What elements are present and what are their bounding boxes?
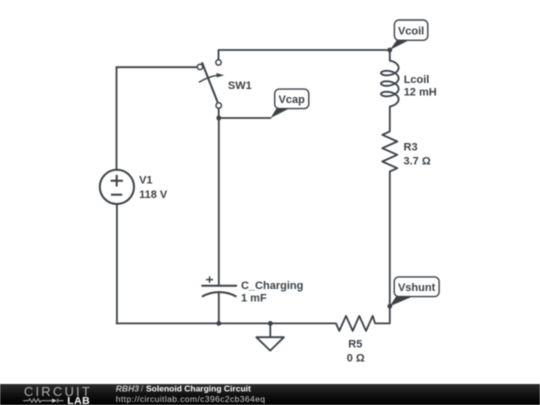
svg-text:Solenoid Charging Circuit: Solenoid Charging Circuit [146, 383, 251, 393]
node Vcoil junction [387, 48, 392, 53]
flag Vshunt [390, 277, 439, 306]
svg-text:Vcoil: Vcoil [398, 25, 424, 37]
logo resistor-diode doodle [23, 398, 63, 403]
node Vshunt junction [387, 304, 392, 309]
svg-text:3.7 Ω: 3.7 Ω [404, 155, 431, 167]
inductor Lcoil [381, 61, 399, 107]
wire bottom horizontal [117, 322, 337, 324]
ground [256, 323, 284, 350]
svg-text:0 Ω: 0 Ω [347, 353, 365, 365]
svg-text:R5: R5 [348, 339, 362, 351]
wire left vertical upper [116, 67, 118, 170]
node junction below switch [216, 116, 221, 121]
svg-text:Vshunt: Vshunt [398, 282, 436, 294]
switch SW1 [197, 60, 224, 109]
wire top-left horizontal [117, 66, 197, 68]
svg-text:http://circuitlab.com/c396c2cb: http://circuitlab.com/c396c2cb364eq [116, 394, 266, 404]
flag Vcap [271, 89, 309, 118]
wire switch-bottom to Vcap junction [218, 109, 220, 118]
svg-text:12 mH: 12 mH [404, 87, 437, 99]
capacitor plus sign [206, 276, 213, 282]
svg-text:R3: R3 [404, 142, 418, 154]
svg-text:Vcap: Vcap [279, 94, 306, 106]
wire R3 to R5 corner (through Vshunt node) [375, 172, 390, 324]
voltage source V1 [100, 170, 134, 204]
wire switch-top to Vcoil node [219, 50, 390, 59]
wire Vcap junction to Vcap node [219, 117, 271, 119]
svg-text:118 V: 118 V [139, 189, 168, 201]
resistor R5 [336, 316, 375, 331]
wire capacitor bottom branch [218, 292, 220, 323]
flag Vcoil [390, 20, 428, 50]
svg-text:LAB: LAB [67, 395, 90, 405]
wire Vcoil node to inductor [389, 50, 391, 61]
svg-text:V1: V1 [139, 175, 152, 187]
node junction ground [268, 321, 273, 326]
wire left vertical lower [116, 204, 118, 323]
capacitor C_Charging [201, 286, 237, 297]
svg-text:RBH3: RBH3 [116, 383, 139, 393]
svg-text:1 mF: 1 mF [241, 293, 267, 305]
svg-text:SW1: SW1 [228, 80, 252, 92]
wire inductor to R3 [389, 107, 391, 132]
svg-text:Lcoil: Lcoil [404, 74, 430, 86]
node junction capacitor-bottom [216, 321, 221, 326]
wire capacitor top branch [218, 118, 220, 286]
resistor R3 [382, 132, 397, 172]
svg-text:C_Charging: C_Charging [241, 280, 303, 292]
